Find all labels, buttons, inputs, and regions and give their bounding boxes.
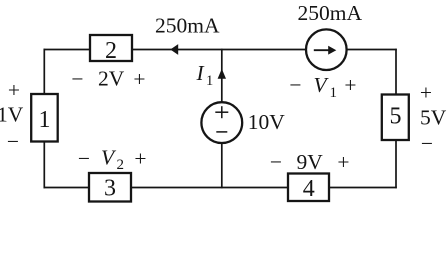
svg-text:1: 1 (39, 107, 51, 133)
wire right column upper (395, 49, 397, 95)
svg-text:−: − (421, 131, 433, 155)
wire center column upper (221, 49, 223, 103)
svg-text:I: I (196, 61, 205, 85)
svg-text:4: 4 (303, 176, 315, 202)
svg-text:−: − (71, 67, 83, 91)
svg-text:250mA: 250mA (155, 14, 220, 38)
svg-text:2V: 2V (98, 67, 125, 91)
current source U1 arrow (314, 49, 330, 51)
svg-text:1V: 1V (0, 103, 24, 127)
svg-text:+: + (134, 146, 146, 170)
wire bottom-left horizontal (44, 187, 90, 189)
wire top-left horizontal (44, 49, 91, 51)
current source U1 circle (306, 29, 347, 70)
resistor box 4 (288, 174, 329, 202)
resistor box 5 (382, 95, 409, 141)
arrowhead I1 up-pointing on center wire (218, 69, 226, 79)
wire bottom middle horizontal (130, 187, 289, 189)
svg-text:−: − (78, 146, 90, 170)
svg-text:+: + (337, 150, 349, 174)
svg-text:+: + (344, 73, 356, 97)
svg-text:5V: 5V (420, 106, 447, 130)
svg-text:250mA: 250mA (298, 1, 363, 25)
voltage source minus mark (216, 131, 227, 133)
svg-text:−: − (289, 73, 301, 97)
wire top-right horizontal (347, 49, 397, 51)
wire left column lower (43, 141, 45, 188)
wire center column lower (221, 142, 223, 188)
voltage source V10 circle (201, 102, 242, 143)
svg-text:+: + (8, 78, 20, 102)
svg-text:+: + (133, 67, 145, 91)
svg-text:V: V (314, 73, 330, 97)
arrowhead 250mA left-pointing on top wire (170, 44, 178, 55)
resistor box 1 (31, 94, 58, 142)
resistor box 3 (89, 173, 131, 202)
svg-text:1: 1 (330, 85, 338, 101)
svg-text:V: V (101, 146, 117, 170)
svg-text:1: 1 (206, 73, 213, 89)
svg-text:2: 2 (117, 157, 125, 173)
wire top middle horizontal (132, 49, 307, 51)
svg-text:−: − (270, 150, 282, 174)
svg-text:3: 3 (104, 175, 116, 201)
svg-text:−: − (7, 129, 19, 153)
resistor box 2 (90, 35, 132, 61)
wire right column lower (395, 139, 397, 188)
svg-text:+: + (420, 80, 432, 104)
svg-text:10V: 10V (248, 110, 285, 134)
svg-text:5: 5 (390, 104, 402, 130)
svg-text:9V: 9V (297, 150, 324, 174)
svg-text:2: 2 (105, 38, 117, 64)
wire bottom-right horizontal (328, 187, 397, 189)
voltage source plus mark (215, 111, 228, 113)
wire left column upper (43, 49, 45, 95)
